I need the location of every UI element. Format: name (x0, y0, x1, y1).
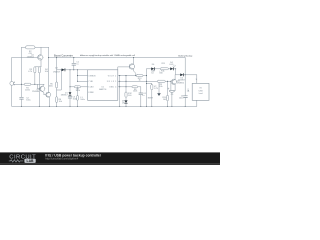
footer bar (0, 152, 220, 163)
svg-text:100m: 100m (25, 89, 30, 91)
svg-text:100k: 100k (48, 86, 52, 88)
svg-text:NiMH: NiMH (148, 98, 154, 100)
svg-text:100n: 100n (73, 98, 77, 100)
wire R7k row (70, 86, 88, 88)
diode D5 (180, 73, 184, 76)
wire LED row (147, 68, 176, 70)
voltage source V1 (10, 58, 15, 107)
wire loop right vertical down (48, 47, 50, 92)
wire R2 feedback loop top (22, 46, 49, 48)
wire D2 row (57, 69, 88, 71)
wire x61.3 vertical and jog (57, 70, 62, 90)
svg-text:3 SHDN: 3 SHDN (88, 75, 96, 77)
svg-text:10k: 10k (159, 86, 162, 88)
transistor Q2 mid (129, 58, 136, 76)
svg-text:U1: U1 (101, 86, 103, 88)
svg-text:3/5 LX 1: 3/5 LX 1 (107, 81, 117, 83)
resistor R11 (160, 68, 168, 70)
transistor Q1 (38, 47, 43, 67)
svg-text:100k: 100k (76, 90, 80, 92)
svg-text:6 LBO: 6 LBO (88, 87, 94, 89)
svg-text:100u: 100u (26, 99, 30, 101)
svg-text:10k: 10k (45, 71, 48, 73)
wire loop left vertical down to R1 row (21, 47, 23, 84)
wire D5 row (176, 75, 197, 84)
resistor R1 (24, 83, 31, 85)
wire right rail x146.5 (146, 69, 148, 107)
svg-text:1N5817: 1N5817 (53, 71, 61, 73)
wire R3 R4 top bar (35, 66, 41, 68)
op-amp U1 IC box (88, 70, 118, 101)
transistor Q4 (171, 75, 176, 91)
resistor R8 (132, 86, 138, 88)
logo resistor zigzag (9, 160, 23, 162)
capacitor C5 polarized cell (168, 81, 176, 106)
svg-text:load: load (199, 93, 203, 95)
svg-text:1.2V: 1.2V (154, 88, 159, 90)
circuit schematic thumbnail (0, 0, 220, 165)
svg-text:MAX756: MAX756 (99, 88, 106, 91)
wire top rail segment B (x48.6 to right corner) (49, 57, 186, 59)
svg-text:VOUT 2: VOUT 2 (108, 75, 117, 77)
junction dots (21, 57, 186, 107)
svg-text:10k: 10k (59, 101, 62, 103)
section titles (54, 54, 193, 58)
transistor Q2 (38, 84, 45, 94)
svg-text:100u: 100u (179, 98, 183, 100)
svg-text:1k: 1k (139, 80, 141, 82)
svg-text:1N5817: 1N5817 (61, 94, 69, 96)
resistor R2 (26, 46, 36, 49)
resistor R4 (38, 67, 40, 73)
svg-text:100k: 100k (133, 91, 137, 93)
resistor R12 (125, 92, 127, 97)
diode D1 (69, 92, 72, 95)
svg-text:LED: LED (170, 64, 174, 66)
wire battery branch (147, 84, 152, 107)
wire x77.5 vertical pin stubs (77, 70, 79, 82)
LED D4 (170, 65, 176, 70)
svg-text:1u: 1u (142, 95, 144, 97)
capacitor C4 (139, 87, 143, 107)
component value labels (25, 51, 197, 104)
wire vertical x126 with R and D3 (125, 76, 127, 107)
diode D3 (124, 100, 127, 103)
capacitor C1 on x73.8 (72, 58, 76, 70)
capacitor C3 (68, 96, 72, 98)
load box labels (199, 88, 204, 96)
logo LAB badge (24, 159, 35, 163)
wire bottom rail (12, 105, 197, 107)
wire pin row y75.6 (118, 75, 147, 77)
wire R1 row (14, 83, 44, 85)
transistor Q3 darlington (44, 92, 51, 106)
svg-text:difference supply backup contr: difference supply backup controller with… (80, 54, 135, 57)
resistor R7 100k (74, 86, 80, 88)
resistor R5 (56, 82, 58, 88)
svg-text:http://circuitlab.com/c6qkhm4: http://circuitlab.com/c6qkhm4 (45, 156, 79, 160)
wire box top-right pin up to Q3mid base (118, 67, 130, 70)
diode D2 (62, 68, 66, 71)
svg-text:100u: 100u (80, 99, 84, 101)
wire x70 vertical with D1 C3 (69, 70, 71, 107)
svg-text:Boost Converter: Boost Converter (54, 54, 73, 58)
resistor R6 (56, 97, 58, 103)
inductor L1 (76, 87, 78, 107)
svg-text:8 REF: 8 REF (88, 92, 94, 94)
svg-text:2N3906: 2N3906 (177, 82, 185, 84)
wire vertical x119.7 (119, 76, 121, 107)
resistor R10 (166, 81, 168, 106)
capacitor C2 (20, 84, 24, 106)
svg-text:LAB: LAB (27, 159, 35, 163)
wire mid vertical x56.6 with R5 R6 (56, 58, 58, 107)
svg-text:2N3904: 2N3904 (27, 57, 35, 59)
load box right (192, 83, 209, 100)
wire load box bottom to rail (196, 100, 198, 106)
resistor R7 (136, 75, 143, 77)
battery V2 (151, 85, 153, 90)
svg-text:Battery Backup: Battery Backup (178, 55, 193, 58)
wire right main vertical (output rail) (184, 58, 186, 107)
svg-text:2N3904: 2N3904 (32, 91, 40, 93)
wire R3 bottom to R1 row (34, 73, 36, 84)
resistor R3 (34, 67, 36, 73)
wire pin row y86.8 R8 (118, 86, 141, 88)
resistor R9 (157, 80, 165, 82)
IC pin labels (88, 75, 116, 94)
wire LED junction down to D5 row (175, 69, 177, 75)
svg-text:7 LBI: 7 LBI (88, 81, 93, 83)
capacitor C6 (184, 96, 188, 98)
wire top rail segment A (left, into Q1 base) (12, 57, 39, 59)
svg-text:GND 4: GND 4 (109, 87, 117, 89)
svg-text:1u: 1u (76, 63, 78, 65)
svg-text:4.7k: 4.7k (28, 71, 32, 73)
diode D6 (151, 67, 155, 70)
wire R4 bottom to ground rail (38, 73, 40, 106)
ground (157, 82, 161, 96)
wire pin row y81.3 (118, 80, 173, 82)
